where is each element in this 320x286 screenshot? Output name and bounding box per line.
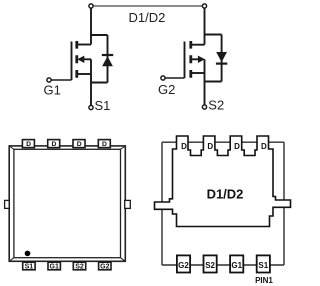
svg-text:D: D (181, 142, 187, 151)
svg-text:G2: G2 (178, 261, 189, 270)
transistor Q2 source stub (191, 72, 205, 74)
svg-text:S2: S2 (205, 261, 215, 270)
svg-text:S1: S1 (95, 98, 111, 113)
svg-text:D: D (77, 141, 82, 148)
pad D1/D2 with D pin tabs outline (155, 136, 291, 227)
pin D top 4 (98, 140, 110, 148)
diode D1 body diode (107, 35, 109, 83)
node G1 terminal circle (47, 78, 51, 82)
svg-text:S1: S1 (25, 264, 34, 271)
svg-text:D: D (102, 141, 107, 148)
svg-text:D1/D2: D1/D2 (129, 10, 166, 25)
svg-text:PIN1: PIN1 (255, 276, 273, 285)
package top view inner bevel (14, 149, 121, 257)
svg-text:S2: S2 (208, 98, 224, 113)
svg-text:D: D (207, 142, 213, 151)
pin G1 bottom (48, 262, 60, 270)
pin1 marker dot (25, 251, 31, 257)
transistor Q2 channel segments (189, 41, 192, 78)
package bevel corner diagonals (9, 146, 125, 261)
diode D2 body diode (221, 35, 223, 82)
pin D top 2 (48, 140, 60, 148)
wire Q2 diode bottom bridge (205, 81, 222, 83)
transistor Q2 body stub with arrow (191, 58, 198, 60)
package top view outer body (9, 146, 125, 261)
transistor Q2 drain stub (191, 44, 205, 46)
transistor Q1 body stub with arrow (84, 58, 92, 60)
svg-text:D: D (51, 141, 56, 148)
wire Q1 source vertical (90, 59, 92, 105)
pin S1 bottom (23, 262, 35, 270)
svg-text:D: D (26, 141, 31, 148)
node G2 terminal circle (161, 76, 165, 80)
wire Q2 source vertical (204, 59, 206, 105)
wire G2 lead (165, 77, 185, 79)
pad S2 bottom-view (204, 255, 217, 272)
wire Q2 diode top bridge (205, 34, 222, 36)
pad S1 bottom-view (257, 255, 270, 272)
transistor Q1 source stub (77, 73, 91, 75)
tab left side (5, 200, 10, 208)
wire Q1 drain vertical (90, 8, 92, 45)
package bottom view outer outline (162, 142, 284, 265)
node top-left terminal circle (89, 4, 93, 8)
pad G2 bottom-view (177, 255, 190, 272)
wire Q1 diode bottom bridge (91, 82, 108, 84)
pin S2 bottom (73, 262, 85, 270)
pin G2 bottom (99, 262, 111, 270)
svg-text:D: D (234, 142, 240, 151)
wire Q1 diode top bridge (91, 34, 108, 36)
wire top rail D1/D2 (91, 5, 205, 7)
wire Q2 drain vertical (204, 8, 206, 45)
svg-text:G1: G1 (50, 264, 59, 271)
node S2 terminal circle (202, 105, 206, 109)
svg-text:G2: G2 (100, 264, 109, 271)
node S1 terminal circle (89, 105, 93, 109)
transistor Q2 gate bar (184, 42, 186, 79)
transistor Q1 channel segments (75, 41, 78, 78)
node top-right terminal circle (202, 4, 206, 8)
svg-text:G1: G1 (231, 261, 242, 270)
pad G1 bottom-view (230, 255, 243, 272)
svg-text:D1/D2: D1/D2 (207, 187, 244, 202)
pin D top 1 (22, 140, 34, 148)
pin D top 3 (73, 140, 85, 148)
svg-text:S2: S2 (75, 264, 84, 271)
svg-text:D: D (261, 142, 267, 151)
tab right side (125, 200, 131, 208)
wire G1 lead (51, 79, 72, 81)
transistor Q1 drain stub (77, 44, 91, 46)
svg-text:G2: G2 (158, 82, 175, 97)
transistor Q1 gate bar (71, 42, 73, 81)
svg-text:S1: S1 (258, 261, 268, 270)
svg-text:G1: G1 (44, 83, 61, 98)
